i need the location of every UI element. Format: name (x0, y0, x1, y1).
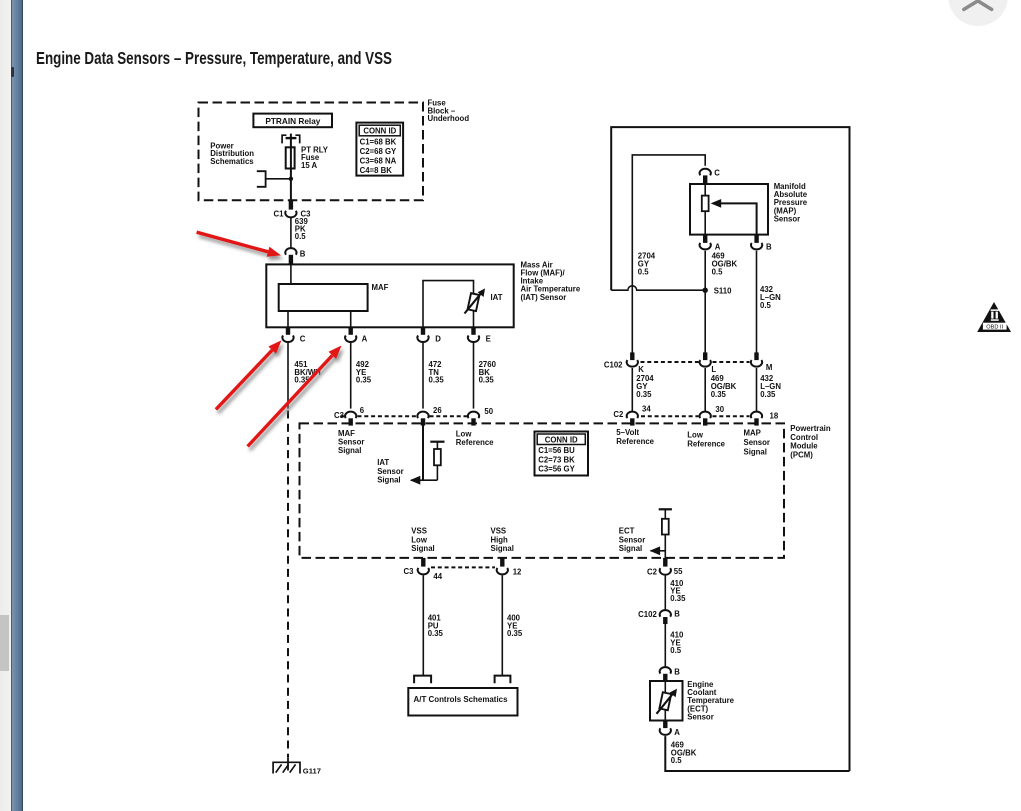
svg-text:Sensor: Sensor (687, 713, 713, 722)
svg-text:Sensor: Sensor (744, 438, 770, 447)
svg-text:0.35: 0.35 (760, 390, 776, 399)
svg-text:C2: C2 (647, 567, 658, 576)
svg-text:Module: Module (790, 442, 818, 451)
connector 44 (418, 558, 443, 581)
wire 432 L-GN 0.35 (756, 368, 758, 411)
wire 26 inside PCM (422, 425, 424, 480)
wire fuse to C1 (290, 169, 292, 201)
label Powertrain Control Module (PCM) (790, 424, 831, 459)
svg-text:Reference: Reference (456, 438, 494, 447)
svg-text:Engine Data Sensors – Pressure: Engine Data Sensors – Pressure, Temperat… (36, 48, 392, 68)
svg-text:Signal: Signal (338, 446, 361, 455)
svg-text:18: 18 (770, 411, 779, 420)
svg-text:Reference: Reference (616, 437, 654, 446)
MAP sensor box (690, 184, 768, 235)
wire 5-volt reference loop (632, 155, 705, 353)
svg-text:Underhood: Underhood (428, 114, 470, 123)
label Mass Air Flow (MAF)/Intake Air Temperature (IAT) Sensor (521, 260, 581, 301)
label 2704 GY 0.5 (638, 252, 656, 277)
label Engine Coolant Temperature (ECT) Sensor (687, 680, 734, 722)
connector A (MAF) (345, 327, 368, 343)
connector C102/B (638, 609, 680, 624)
connector B (MAF) (285, 248, 306, 264)
svg-text:C2=68 GY: C2=68 GY (360, 147, 397, 156)
junction dot (289, 177, 293, 181)
svg-text:MAF: MAF (372, 283, 389, 292)
connector 34 (627, 404, 652, 425)
ECT sensor box (650, 681, 683, 721)
svg-text:0.35: 0.35 (429, 376, 445, 385)
label 401 PU 0.35 (428, 614, 444, 638)
label Low Reference (MAP) (687, 430, 725, 448)
svg-text:15 A: 15 A (301, 161, 318, 170)
connector 26 (417, 406, 442, 426)
svg-text:OBD II: OBD II (986, 324, 1003, 330)
svg-text:K: K (638, 365, 644, 374)
ECT pull-up wire (664, 509, 666, 519)
svg-text:IAT: IAT (491, 293, 503, 302)
wire ECT ground run (665, 736, 849, 771)
relay terminal symbol (282, 135, 300, 143)
svg-text:34: 34 (642, 404, 651, 413)
svg-text:C102: C102 (604, 361, 623, 370)
label VSS Low Signal (411, 527, 434, 554)
fuse block - underhood dashed box (199, 103, 424, 201)
IAT resistor to node (436, 465, 438, 480)
connector D (MAF) (417, 327, 441, 343)
connector C1/C3 (274, 200, 312, 218)
svg-text:26: 26 (433, 406, 442, 415)
CONN ID table (fuse block) (356, 123, 403, 176)
dashes 44 to 12 (431, 566, 495, 568)
A/T bracket left (414, 676, 431, 684)
svg-text:(PCM): (PCM) (790, 450, 813, 459)
wire 472 TN (422, 343, 424, 409)
svg-text:12: 12 (513, 567, 522, 576)
label 639 PK 0.5 (295, 217, 309, 241)
dashes 30 to 18 (713, 415, 750, 417)
label Fuse Block - Underhood (428, 98, 470, 123)
svg-text:CONN ID: CONN ID (363, 127, 396, 136)
label MAP Sensor Signal (744, 428, 770, 456)
svg-text:0.35: 0.35 (711, 390, 727, 399)
svg-text:C: C (714, 168, 720, 177)
ground G117 (273, 757, 321, 775)
svg-text:A: A (674, 728, 680, 737)
svg-text:30: 30 (715, 405, 724, 414)
svg-text:C4=8 BK: C4=8 BK (360, 166, 393, 175)
MAF element U1 (279, 283, 389, 311)
connector 18 (751, 411, 779, 425)
svg-text:(IAT) Sensor: (IAT) Sensor (521, 293, 567, 302)
red arrow to A (248, 346, 342, 447)
OBD II icon (977, 302, 1011, 332)
connector B (ECT) (660, 667, 681, 681)
label 492 YE 0.35 (356, 360, 372, 384)
ECT pull-up resistor (662, 519, 669, 535)
svg-text:C1=68 BK: C1=68 BK (360, 137, 397, 146)
label 400 YE 0.35 (507, 614, 523, 638)
close button (948, 0, 1008, 26)
label 432 L-GN 0.35 (760, 374, 781, 399)
connector 6 (345, 406, 365, 425)
label 469 OG/BK 0.35 (711, 374, 737, 399)
wire 639 PK (290, 218, 292, 248)
wire B into MAF element (290, 264, 292, 284)
label 5-Volt Reference (616, 428, 654, 446)
label 432 L-GN 0.5 (760, 285, 781, 310)
svg-text:IAT: IAT (377, 458, 389, 467)
connector row C3 dashes (340, 415, 345, 417)
connector K (627, 352, 645, 374)
IAT pull-up wire (436, 442, 438, 449)
svg-text:55: 55 (674, 567, 683, 576)
svg-text:0.35: 0.35 (428, 629, 444, 638)
label 410 YE 0.35 (670, 579, 686, 603)
label 410 YE 0.5 (670, 631, 684, 655)
wire 451 dashed to ground (287, 411, 289, 758)
connector E (MAF) (468, 327, 491, 343)
svg-text:Signal: Signal (491, 544, 514, 553)
svg-text:D: D (435, 335, 441, 344)
svg-text:A/T Controls Schematics: A/T Controls Schematics (414, 695, 508, 704)
svg-text:E: E (486, 335, 491, 344)
wire ground loop (469 OG/BK) (611, 127, 849, 771)
fuse PT RLY 15A (286, 147, 295, 168)
label MAF Sensor Signal (338, 429, 364, 455)
svg-text:C3: C3 (404, 567, 415, 576)
dashes K to L (641, 361, 699, 363)
svg-text:Control: Control (790, 433, 818, 442)
IAT signal arrow (410, 476, 421, 485)
wire 410 YE 0.5 (664, 624, 666, 667)
svg-text:Signal: Signal (744, 447, 767, 456)
svg-text:Signal: Signal (377, 476, 400, 485)
wire 469 OG/BK (MAP A) (704, 251, 706, 353)
svg-text:Low: Low (687, 430, 704, 439)
label 469 OG/BK 0.5 (ECT) (671, 741, 697, 765)
connector 30 (700, 405, 725, 426)
svg-text:0.35: 0.35 (507, 629, 523, 638)
wire 432 L-GN (MAP B) (756, 251, 758, 353)
A/T bracket right (495, 676, 511, 684)
svg-text:C2: C2 (613, 410, 624, 419)
svg-text:C102: C102 (638, 610, 657, 619)
CONN ID table (PCM) (535, 432, 589, 476)
label 451 BK/WH 0.35 (294, 360, 321, 384)
svg-text:ECT: ECT (619, 527, 635, 536)
svg-text:A: A (715, 242, 721, 251)
connector C2/55 (647, 558, 683, 576)
svg-text:C3: C3 (334, 411, 345, 420)
svg-text:A: A (362, 335, 368, 344)
wire MAF to A (350, 311, 352, 327)
label 472 TN 0.35 (429, 360, 445, 384)
svg-text:B: B (674, 668, 680, 677)
label Low Reference (IAT) (456, 429, 494, 447)
svg-text:0.5: 0.5 (295, 232, 307, 241)
svg-text:B: B (766, 242, 772, 251)
label 2760 BK 0.35 (479, 360, 497, 384)
svg-text:C3=56 GY: C3=56 GY (538, 465, 575, 474)
PCM dashed box (300, 423, 785, 558)
svg-text:Sensor: Sensor (774, 214, 800, 223)
svg-text:G117: G117 (303, 766, 321, 775)
ECT pull-up supply bar (659, 508, 672, 510)
svg-text:Low: Low (411, 535, 428, 544)
svg-text:S110: S110 (714, 287, 732, 296)
MAP wiper arrow (711, 199, 757, 235)
svg-text:Powertrain: Powertrain (790, 424, 831, 433)
svg-text:VSS: VSS (411, 527, 427, 536)
svg-text:Signal: Signal (411, 544, 434, 553)
svg-text:C: C (300, 335, 306, 344)
svg-text:M: M (766, 363, 773, 372)
svg-text:C1: C1 (274, 209, 285, 218)
wire 401 PU (422, 575, 424, 675)
connector M (751, 352, 773, 372)
connector 50 (468, 407, 494, 425)
wire 492 YE (350, 343, 352, 409)
wire relay to fuse (290, 134, 292, 149)
svg-text:6: 6 (360, 406, 365, 415)
wire 451 BK/WH (287, 343, 289, 409)
MAP potentiometer resistor (702, 196, 709, 212)
connector A (MAP) (700, 235, 721, 252)
red arrow to C (216, 340, 282, 409)
svg-text:0.5: 0.5 (760, 301, 772, 310)
svg-text:CONN ID: CONN ID (545, 435, 578, 444)
IAT signal node wire (411, 479, 437, 481)
dashes 34 to 30 (641, 415, 699, 417)
ECT signal arrow wire (651, 550, 666, 552)
svg-text:PTRAIN Relay: PTRAIN Relay (265, 117, 320, 126)
svg-text:MAP: MAP (744, 428, 761, 437)
svg-text:Sensor: Sensor (377, 467, 403, 476)
label Manifold Absolute Pressure (MAP) Sensor (774, 182, 808, 223)
svg-text:0.5: 0.5 (638, 268, 650, 277)
connector C (MAF) (282, 327, 305, 343)
wire MAF to C (287, 311, 289, 327)
PTRAIN Relay box (253, 114, 332, 128)
connector 12 (497, 558, 522, 577)
svg-text:L: L (711, 365, 716, 374)
svg-text:C1=56 BU: C1=56 BU (538, 446, 575, 455)
wire 400 YE (501, 575, 503, 675)
svg-text:B: B (674, 609, 680, 618)
svg-text:0.35: 0.35 (670, 594, 686, 603)
svg-text:C3=68 NA: C3=68 NA (360, 156, 397, 165)
dashes 6 to 26 (358, 415, 417, 417)
wire 469 OG/BK 0.35 (704, 368, 706, 411)
IAT pull-up supply bar (430, 441, 444, 443)
wire bracket to fuse wire (266, 178, 291, 180)
MAP potentiometer wire (704, 184, 706, 235)
svg-text:B: B (300, 250, 306, 259)
label VSS High Signal (491, 527, 514, 554)
wire 410 YE 0.35 (664, 576, 666, 611)
red arrow to B (197, 232, 281, 257)
connector A (ECT) (660, 721, 681, 737)
IAT wiring (423, 281, 474, 328)
svg-text:Signal: Signal (619, 544, 642, 553)
svg-text:VSS: VSS (491, 527, 507, 536)
svg-text:0.5: 0.5 (712, 268, 724, 277)
label PT RLY Fuse 15 A (301, 145, 329, 169)
IAT thermistor (465, 288, 503, 313)
svg-text:50: 50 (484, 407, 493, 416)
svg-text:0.5: 0.5 (670, 646, 682, 655)
label 2704 GY 0.35 (636, 374, 654, 399)
IAT pull-up resistor (434, 449, 441, 465)
svg-text:Sensor: Sensor (619, 535, 645, 544)
svg-text:C2=73 BK: C2=73 BK (538, 455, 575, 464)
svg-text:0.35: 0.35 (479, 376, 495, 385)
power distribution bracket (257, 171, 266, 187)
label 469 OG/BK 0.5 (712, 252, 738, 277)
ECT resistor to connector (664, 535, 666, 559)
connector L (700, 352, 717, 374)
ECT thermistor (657, 681, 678, 721)
wire S110 link with hump (611, 286, 703, 290)
svg-text:5–Volt: 5–Volt (616, 428, 639, 437)
label ECT Sensor Signal (619, 527, 645, 554)
label Power Distribution Schematics (210, 141, 254, 165)
connector C (MAP) (700, 168, 721, 184)
dashes L to M (713, 361, 750, 363)
A/T Controls Schematics box (408, 688, 517, 716)
connector B (MAP) (751, 235, 772, 252)
svg-text:0.35: 0.35 (356, 376, 372, 385)
wire 2704 GY 0.35 (631, 368, 633, 411)
svg-text:44: 44 (433, 572, 442, 581)
svg-text:0.5: 0.5 (671, 756, 683, 765)
splice S110 (703, 287, 733, 296)
label IAT Sensor Signal (377, 458, 403, 484)
wire 2760 BK (473, 343, 475, 409)
MAF/IAT sensor box (266, 264, 513, 327)
ECT signal arrow (650, 546, 661, 555)
svg-text:Schematics: Schematics (210, 157, 254, 166)
dashes 26 to 50 (430, 415, 468, 417)
svg-text:Reference: Reference (687, 439, 725, 448)
svg-text:0.35: 0.35 (636, 390, 652, 399)
svg-text:High: High (491, 535, 509, 544)
